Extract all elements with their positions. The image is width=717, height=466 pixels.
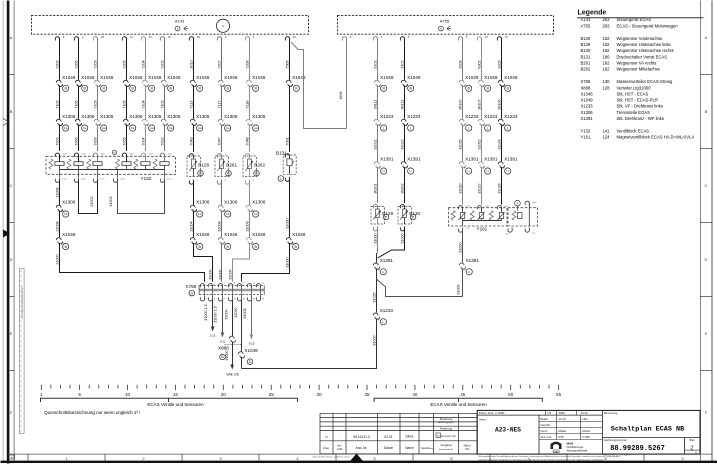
svg-text:7209: 7209 <box>93 60 97 68</box>
connector X1306 col 59 <box>56 114 76 127</box>
svg-text:X1046: X1046 <box>224 75 238 80</box>
wire X1233 to X1391 col 404 <box>400 124 404 161</box>
wire A755 pin to X1049 col 501 <box>497 39 501 80</box>
sensor B262 label <box>254 162 265 167</box>
svg-text:36107: 36107 <box>477 99 481 109</box>
wire X1306 to valve block col 164 <box>160 124 164 151</box>
Y132 bus exit drops <box>60 170 165 178</box>
sensor B130 entry pin <box>400 205 409 210</box>
svg-text:Lt: Lt <box>410 169 413 173</box>
svg-text:D: D <box>249 360 252 364</box>
left margin ruler <box>19 269 24 434</box>
connector X1233 return <box>373 308 393 322</box>
svg-text:X1046: X1046 <box>167 75 181 80</box>
svg-text:5280: 5280 <box>559 411 566 415</box>
svg-text:15: 15 <box>173 392 179 397</box>
X1391 pin code Lt col 462 <box>466 168 472 174</box>
svg-text:X1046: X1046 <box>581 91 594 96</box>
wire X1306 to valve block col 126 <box>122 124 126 151</box>
svg-text:2: 2 <box>691 446 694 452</box>
svg-text:zahl: zahl <box>337 447 343 451</box>
svg-text:Norm: Norm <box>541 429 549 433</box>
svg-text:X1046: X1046 <box>292 232 306 237</box>
svg-text:162: 162 <box>603 42 611 47</box>
wire X1391 to Y161 col 481 <box>477 167 481 205</box>
svg-text:Cb: Cb <box>254 212 258 216</box>
svg-text:X1049: X1049 <box>581 98 594 103</box>
connector X1046 lower col 193 <box>190 232 210 245</box>
X1049 pin code B col 377 <box>381 85 387 91</box>
svg-text:RTF: RTF <box>559 435 565 439</box>
wire X1306 to valve block col 59 <box>55 124 59 151</box>
A143 pin 2 <box>74 35 83 41</box>
connector X1049 col 481 <box>478 75 498 88</box>
bottom left H mark <box>9 455 15 460</box>
Y132 return spring left <box>49 159 53 169</box>
sensor B129 entry pin <box>373 205 382 210</box>
svg-text:Y161: Y161 <box>581 135 591 140</box>
wire loop Y132 exits 4-5 <box>109 180 165 214</box>
svg-text:Me/Hz: Me/Hz <box>583 429 592 433</box>
svg-text:130: 130 <box>603 79 611 84</box>
svg-text:X1306: X1306 <box>581 110 594 115</box>
svg-text:31021: 31021 <box>373 139 377 149</box>
svg-text:21008: 21008 <box>55 221 59 231</box>
connector X1391 col 481 <box>478 157 498 170</box>
svg-text:5: 5 <box>78 392 81 397</box>
wire X1306 to sensor B128 <box>189 124 193 152</box>
sensor B262 pin code <box>254 171 260 177</box>
X1391 Y161 pin code Lt <box>466 269 472 275</box>
X1391 pin code Lt col 404 <box>408 168 414 174</box>
wire X1049 to B131 <box>285 85 289 152</box>
left centre fold marks <box>3 119 10 238</box>
svg-text:10: 10 <box>485 35 489 39</box>
sensor B261 exit pin <box>217 180 226 185</box>
connector X1046 lower col 289 <box>286 232 306 245</box>
svg-text:23: 23 <box>293 35 297 39</box>
sensor B128 entry pin <box>189 154 198 159</box>
A143 pin 18 <box>93 35 104 41</box>
svg-text:X1233: X1233 <box>380 308 394 313</box>
X1306 pin code Ca col 126 <box>130 125 136 131</box>
svg-text:X1046: X1046 <box>148 75 162 80</box>
svg-text:21008: 21008 <box>55 187 59 197</box>
sensor B261 pin code <box>226 171 232 177</box>
connector X1306 lower col 249 <box>246 200 266 213</box>
X1233 return pin code L <box>380 319 386 325</box>
wire X1233 return to bus <box>242 318 377 368</box>
Y132 exit pin 1d/2 <box>113 178 125 183</box>
connector X1306 lower col 59 <box>56 200 76 213</box>
svg-text:7047: 7047 <box>217 137 221 145</box>
svg-text:31000: 31000 <box>228 269 232 279</box>
sensor B128 pin code <box>198 171 204 177</box>
wire A143 pin to X1046 col 193 <box>189 39 193 80</box>
svg-text:B128: B128 <box>198 162 209 167</box>
wire B262 return to X758 <box>228 243 249 282</box>
svg-text:124: 124 <box>603 135 611 140</box>
svg-text:X1306: X1306 <box>224 200 238 205</box>
wire X1049 to X1233 col 481 <box>477 85 481 118</box>
svg-text:31025: 31025 <box>458 139 462 149</box>
connector X1049 col 377 <box>374 75 394 88</box>
wire X888 to SAE <box>225 342 234 370</box>
svg-text:X1306: X1306 <box>62 114 76 119</box>
A755 pin 10 <box>477 35 488 41</box>
connector X1391 col 404 <box>401 157 421 170</box>
X1233 pin code L col 481 <box>485 125 491 131</box>
svg-text:Ca: Ca <box>150 126 154 130</box>
svg-text:X1391: X1391 <box>581 116 594 121</box>
svg-text:X1046: X1046 <box>129 75 143 80</box>
svg-text:X1306: X1306 <box>100 114 114 119</box>
X1049 pin code B col 501 <box>505 85 511 91</box>
wire X1306 to X1046 lower col 193 <box>189 210 193 237</box>
svg-text:Steuergerät EGAS: Steuergerät EGAS <box>617 17 652 22</box>
svg-text:MAN: MAN <box>567 442 574 446</box>
svg-text:7061: 7061 <box>285 137 289 145</box>
svg-text:31027: 31027 <box>477 183 481 193</box>
svg-text:Trennstelle EGAS: Trennstelle EGAS <box>617 110 651 115</box>
X1046 pin code B col 145 <box>149 85 155 91</box>
sensor B130 box <box>398 207 412 225</box>
svg-text:A: A <box>10 35 13 40</box>
svg-text:31000 1.5: 31000 1.5 <box>213 306 217 322</box>
svg-text:X1391: X1391 <box>380 258 394 263</box>
connector X1233 col 404 <box>401 114 421 127</box>
svg-text:40: 40 <box>412 392 418 397</box>
svg-text:7009: 7009 <box>93 137 97 145</box>
svg-text:X1306: X1306 <box>81 114 95 119</box>
svg-text:d: d <box>326 435 328 439</box>
wire X1049 to X1233 col 377 <box>373 85 377 118</box>
svg-text:21002: 21002 <box>90 196 94 206</box>
svg-text:25: 25 <box>269 392 275 397</box>
svg-text:C: C <box>10 183 13 188</box>
svg-text:31000: 31000 <box>456 284 460 294</box>
sensor B129 box <box>371 207 385 225</box>
svg-text:H: H <box>11 456 13 460</box>
wire X1306 to X1046 lower col 249 <box>245 210 249 237</box>
connector X1233 col 377 <box>374 114 394 127</box>
Y132 exit pin 1b/2 <box>74 178 86 183</box>
Y132 solenoid coils <box>55 155 169 170</box>
svg-text:Aktiengesellschaft: Aktiengesellschaft <box>567 448 588 452</box>
svg-text:X1391: X1391 <box>484 157 498 162</box>
left heavy border <box>7 1 10 464</box>
bracket ECAS Ventile und Sensoren right <box>374 398 542 407</box>
X1306 pin code Ca col 97 <box>101 125 107 131</box>
svg-text:B: B <box>10 109 13 114</box>
connector X1306 lower col 221 <box>218 200 238 213</box>
A143 plug symbol <box>175 26 188 31</box>
X1233 pin code L col 404 <box>408 125 414 131</box>
svg-text:C: C <box>705 183 708 188</box>
connector X1049 D <box>238 348 258 360</box>
svg-text:31025: 31025 <box>372 292 376 302</box>
X1046 lower pin code B col 249 <box>253 243 259 249</box>
svg-text:X1391: X1391 <box>465 157 479 162</box>
X888 pin code B <box>220 354 226 360</box>
svg-text:50: 50 <box>508 392 514 397</box>
svg-text:A755: A755 <box>581 23 591 28</box>
svg-text:7118: 7118 <box>245 101 249 109</box>
svg-text:Lt: Lt <box>383 169 386 173</box>
Y132 exit pin 1e/2 <box>160 178 172 183</box>
svg-text:X758: X758 <box>581 79 591 84</box>
svg-text:nicht freigegeb.: nicht freigegeb. <box>438 421 455 424</box>
right outer line <box>711 1 713 463</box>
connector X1046 col 97 <box>94 75 114 88</box>
svg-text:Lt: Lt <box>507 169 510 173</box>
A143 pin 12 <box>122 35 133 41</box>
svg-text:X1046: X1046 <box>196 75 210 80</box>
svg-text:21000: 21000 <box>55 254 59 264</box>
X758 label <box>186 284 197 289</box>
wire X1306 to X1046 lower col 221 <box>217 210 221 237</box>
connector X1306 col 164 <box>161 114 181 127</box>
X1049 pin code B col 289 <box>293 85 299 91</box>
sensor B261 box <box>215 156 229 177</box>
wire X1306 to valve block col 97 <box>93 124 97 151</box>
connector X1391 col 377 <box>374 157 394 170</box>
svg-text:Schaltplan ECAS NB: Schaltplan ECAS NB <box>611 425 684 433</box>
wire B262 to X1306 lower col 249 <box>249 181 251 205</box>
A143 pin 23 <box>285 35 296 41</box>
svg-text:F-860: F-860 <box>583 435 591 439</box>
svg-text:36100: 36100 <box>458 99 462 109</box>
Y132 internal bus <box>60 169 165 171</box>
X758 pin code D <box>189 290 195 296</box>
svg-text:Y161: Y161 <box>477 226 488 231</box>
connector X1306 col 97 <box>94 114 114 127</box>
wire X758 to X888 <box>224 300 232 336</box>
X1306 lower pin code Cb col 221 <box>225 211 231 217</box>
Y161 auxiliary box <box>508 208 538 226</box>
wire X758 to point 3/15 <box>243 300 255 346</box>
svg-text:A143: A143 <box>175 19 185 24</box>
svg-text:7048: 7048 <box>245 137 249 145</box>
svg-text:X1233: X1233 <box>504 114 518 119</box>
svg-text:X888: X888 <box>581 85 591 90</box>
svg-text:Im Urheberrechtsschutz 96 mm: Im Urheberrechtsschutz 96 mm <box>21 286 24 318</box>
pressure switch B131 box <box>276 151 296 175</box>
svg-text:7205: 7205 <box>122 60 126 68</box>
svg-text:31026: 31026 <box>497 183 501 193</box>
wire A143 pin to X1046 col 78 <box>74 39 78 80</box>
svg-text:31024: 31024 <box>497 139 501 149</box>
X1306 pin code Ca col 145 <box>149 125 155 131</box>
svg-text:162: 162 <box>603 48 611 53</box>
svg-text:7207: 7207 <box>217 60 221 68</box>
svg-text:X1306: X1306 <box>148 114 162 119</box>
svg-text:31000: 31000 <box>218 269 222 279</box>
X1306 lower pin code Cb col 59 <box>63 211 69 217</box>
A755 pin 8 <box>342 35 351 41</box>
svg-text:7006: 7006 <box>74 137 78 145</box>
svg-text:X1046: X1046 <box>252 75 266 80</box>
svg-text:Ca: Ca <box>254 126 258 130</box>
valve block entry pin col 126 <box>122 153 134 158</box>
wire X1306 to sensor B262 <box>245 124 249 152</box>
svg-text:3209: 3209 <box>497 60 501 68</box>
svg-text:Lt: Lt <box>487 169 490 173</box>
svg-text:7103: 7103 <box>160 100 164 108</box>
svg-text:B262: B262 <box>581 67 591 72</box>
svg-text:15: 15 <box>168 35 172 39</box>
svg-text:X1233: X1233 <box>581 104 594 109</box>
svg-text:31000: 31000 <box>458 242 462 252</box>
svg-text:Weitergabe sowie Vervielfältig: Weitergabe sowie Vervielfältigung dieser… <box>479 455 621 458</box>
wire loop Y132 exits 2-3 <box>79 180 98 214</box>
X1046 lower pin code B col 193 <box>197 243 203 249</box>
svg-text:31008: 31008 <box>217 221 221 231</box>
A143 label <box>175 19 185 24</box>
svg-text:20: 20 <box>221 392 227 397</box>
svg-text:X1046: X1046 <box>252 232 266 237</box>
svg-text:X1306: X1306 <box>252 114 266 119</box>
connector X1391 col 462 <box>459 157 479 170</box>
svg-text:bei neuem Urk.: bei neuem Urk. <box>441 435 457 438</box>
connector X1046 col 126 <box>123 75 143 88</box>
wire X1233 to X1391 col 377 <box>373 124 377 161</box>
svg-text:7004: 7004 <box>141 137 145 145</box>
svg-text:B261: B261 <box>226 162 237 167</box>
svg-text:Benennung: Benennung <box>604 411 618 415</box>
wire X1046 to X1306 col 97 <box>93 85 97 118</box>
wire X1306 to sensor B261 <box>217 124 221 152</box>
sensor B128 box <box>187 156 201 177</box>
svg-text:L: L <box>410 126 412 130</box>
svg-text:X1306: X1306 <box>224 114 238 119</box>
svg-text:31020: 31020 <box>458 183 462 193</box>
sensor B261 entry pin <box>217 154 226 159</box>
wire X1046 to X1306 col 193 <box>189 85 193 118</box>
svg-text:X1046: X1046 <box>196 232 210 237</box>
svg-text:X888: X888 <box>218 346 229 351</box>
svg-text:A143: A143 <box>581 17 591 22</box>
Y132 valve springs <box>67 159 157 169</box>
connector X1049 col 501 <box>498 75 518 88</box>
svg-text:Wegsensor Vorderachse: Wegsensor Vorderachse <box>617 36 663 41</box>
A143 pin 9 <box>55 35 64 41</box>
wire X1391 to B129 <box>373 167 377 203</box>
svg-text:film: film <box>465 447 470 451</box>
A755 label <box>440 19 450 24</box>
X1049 D pin code <box>247 359 253 365</box>
wire X1391 to Y161 col 462 <box>458 167 462 205</box>
svg-text:3208: 3208 <box>458 60 462 68</box>
connector X1049 col 404 <box>401 75 421 88</box>
Y161 pressure switch symbol <box>515 200 521 210</box>
svg-text:Legende: Legende <box>578 10 607 17</box>
wire col 59 to ground bus <box>55 243 204 282</box>
X1306 pin code Ca col 193 <box>197 125 203 131</box>
svg-text:Querschnittsbezeichnung nur we: Querschnittsbezeichnung nur wenn ungleic… <box>44 410 140 415</box>
svg-text:31009: 31009 <box>245 221 249 231</box>
title block fine print <box>313 454 630 462</box>
X1391 pin code Lt col 501 <box>505 168 511 174</box>
svg-text:31000: 31000 <box>224 309 228 319</box>
sensor B128 exit pin <box>189 180 198 185</box>
sensor B130 pin code <box>410 214 416 220</box>
wire X1049 to X1233 col 404 <box>400 85 404 118</box>
svg-text:7506: 7506 <box>285 60 289 68</box>
wire X1046 to X1306 col 126 <box>122 85 126 118</box>
svg-text:B261: B261 <box>581 60 591 65</box>
connector X1046 lower col 221 <box>218 232 238 245</box>
connector X1391 return left <box>373 258 393 272</box>
wire X758 to point 1/15 <box>204 300 216 338</box>
svg-text:283: 283 <box>603 23 611 28</box>
svg-text:7106: 7106 <box>74 100 78 108</box>
sensor B262 exit pin <box>245 180 254 185</box>
svg-text:25: 25 <box>197 35 201 39</box>
svg-text:Lt: Lt <box>382 270 385 274</box>
X1233 pin code L col 377 <box>381 125 387 131</box>
svg-text:SAE 2/6: SAE 2/6 <box>226 372 239 376</box>
connector X1046 col 221 <box>218 75 238 88</box>
svg-text:Wegsensor Hinterachse links: Wegsensor Hinterachse links <box>617 42 671 47</box>
wire B128 return to X758 <box>194 243 213 282</box>
svg-text:7105: 7105 <box>122 100 126 108</box>
wire X1306 to valve block col 145 <box>141 124 145 151</box>
svg-text:Sch.-Anl.: Sch.-Anl. <box>541 435 553 439</box>
svg-text:141: 141 <box>603 129 611 134</box>
svg-text:1606: 1606 <box>339 91 343 99</box>
wire X758 to X1049 D <box>234 300 242 352</box>
svg-text:7202: 7202 <box>55 60 59 68</box>
svg-text:L: L <box>280 177 282 181</box>
wire B261 to X1306 lower col 221 <box>221 181 223 205</box>
connector X1391 Y161 return <box>459 258 479 272</box>
Y161 exit pin <box>458 228 470 233</box>
Y161 designator <box>477 226 488 231</box>
Y161 aux internals <box>512 201 537 226</box>
svg-text:X1391: X1391 <box>407 157 421 162</box>
svg-text:A23-NES: A23-NES <box>495 427 521 434</box>
svg-text:MAN: MAN <box>554 450 559 453</box>
svg-text:L: L <box>468 126 470 130</box>
legend <box>577 10 704 140</box>
svg-text:X1049: X1049 <box>244 348 258 353</box>
B131 exit pin <box>285 177 289 182</box>
revision table <box>320 413 477 454</box>
svg-text:Verw.:: Verw.: <box>479 417 487 421</box>
wire B131 to X1046 lower <box>285 178 289 237</box>
svg-text:U3: U3 <box>548 411 552 415</box>
connector X1233 col 501 <box>498 114 518 127</box>
svg-text:35: 35 <box>364 392 370 397</box>
connector X1046 col 59 <box>56 75 76 88</box>
wire X758 to point 1/10 <box>213 300 225 344</box>
outer left trim line <box>2 1 4 463</box>
svg-text:31000: 31000 <box>373 233 377 243</box>
wire X1306 to X1046 lower col 59 <box>55 210 59 237</box>
svg-text:30: 30 <box>317 392 323 397</box>
bottom coordinate ruler <box>40 385 562 397</box>
wire X1049 D return bus <box>241 357 243 369</box>
wire X1233 to X1391 col 462 <box>458 124 462 161</box>
svg-text:A: A <box>705 35 708 40</box>
connector X1233 col 462 <box>459 114 479 127</box>
X1046 pin code B col 126 <box>130 85 136 91</box>
svg-text:Bearb.: Bearb. <box>541 417 549 421</box>
X1233 pin code L col 462 <box>466 125 472 131</box>
wire A143 pin to X1046 col 145 <box>141 39 145 80</box>
connector X1306 lower col 193 <box>190 200 210 213</box>
